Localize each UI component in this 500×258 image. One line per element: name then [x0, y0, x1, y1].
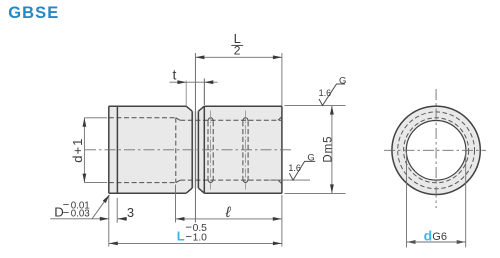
- svg-text:1.0: 1.0: [193, 233, 208, 244]
- svg-text:GBSE: GBSE: [8, 4, 59, 22]
- svg-text:L: L: [177, 229, 185, 244]
- svg-text:1.6: 1.6: [288, 163, 301, 173]
- svg-text:−: −: [185, 232, 192, 244]
- svg-text:d+1: d+1: [70, 138, 85, 163]
- svg-text:G6: G6: [432, 231, 447, 243]
- svg-text:1.6: 1.6: [319, 88, 332, 98]
- svg-text:−: −: [63, 208, 70, 220]
- svg-text:t: t: [173, 66, 177, 82]
- svg-text:3: 3: [127, 205, 134, 220]
- svg-text:d: d: [424, 227, 433, 243]
- svg-text:2: 2: [234, 43, 241, 57]
- svg-text:G: G: [307, 153, 314, 164]
- svg-text:G: G: [339, 76, 346, 87]
- svg-text:0.03: 0.03: [71, 209, 91, 220]
- svg-text:Dm5: Dm5: [322, 136, 334, 163]
